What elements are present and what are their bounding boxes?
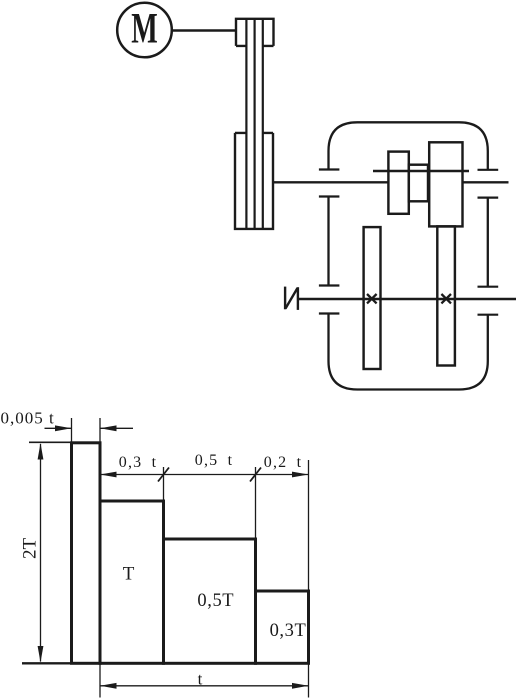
arrow 0,3t left xyxy=(100,472,117,478)
belt line right xyxy=(262,19,264,229)
svg-text:t: t xyxy=(198,670,203,689)
arrow 2T down xyxy=(38,646,44,663)
belt drive small pulley xyxy=(236,19,274,46)
bar 0,5T xyxy=(164,539,256,663)
arrow 2T up xyxy=(38,443,44,460)
input shaft segment from pulley xyxy=(273,181,388,183)
shaft break symbol xyxy=(285,287,298,310)
dim t top line xyxy=(100,474,309,476)
dim 2T vertical xyxy=(40,444,42,662)
bar 0,3T xyxy=(256,591,309,663)
coupling hub xyxy=(409,165,428,202)
gear wheel right on output shaft xyxy=(437,226,455,365)
bearing input shaft right wall xyxy=(478,170,499,198)
svg-text:0,5T: 0,5T xyxy=(197,591,234,611)
extension below baseline right xyxy=(308,663,310,697)
extension below baseline left xyxy=(99,663,101,697)
baseline axis xyxy=(22,662,309,664)
bar 2T xyxy=(72,443,101,664)
svg-text:0,2 t: 0,2 t xyxy=(264,454,302,471)
belt drive big pulley xyxy=(235,133,273,229)
svg-text:0,005 t: 0,005 t xyxy=(1,409,55,428)
slash tick 0,3t xyxy=(158,468,169,482)
dim 2T top tick xyxy=(29,441,72,443)
svg-text:0,5 t: 0,5 t xyxy=(195,452,233,469)
svg-text:0,3 t: 0,3 t xyxy=(119,454,157,471)
belt centerline xyxy=(254,19,256,229)
belt line left xyxy=(245,19,247,229)
fixed joint mark right gear xyxy=(441,294,451,303)
svg-text:T: T xyxy=(123,564,135,585)
gear wheel left on output shaft xyxy=(364,227,381,369)
motor shaft wire xyxy=(172,29,236,31)
bearing output shaft right wall xyxy=(478,287,499,315)
extension line 0,5t xyxy=(255,467,257,538)
bearing output shaft left wall xyxy=(319,286,340,314)
arrow 0,005t left-pointing xyxy=(100,425,117,431)
bar T xyxy=(100,501,164,663)
extension line 0,3t xyxy=(163,467,165,500)
arrow 0,2t right xyxy=(292,472,309,478)
shaft line across gears xyxy=(373,170,469,172)
dim 0,005t line right xyxy=(100,427,133,429)
arrow t right xyxy=(292,683,309,689)
svg-text:2T: 2T xyxy=(20,538,41,560)
load diagram xyxy=(22,443,309,664)
arrow 0,005t right-pointing xyxy=(55,425,72,431)
svg-text:0,3T: 0,3T xyxy=(270,621,307,641)
svg-text:M: M xyxy=(131,6,158,53)
fixed joint mark left gear xyxy=(367,294,377,303)
gearbox housing xyxy=(329,122,488,389)
extension line bar left xyxy=(71,418,73,442)
output shaft xyxy=(298,298,516,300)
dim t bottom line xyxy=(100,685,309,687)
gear big on input shaft xyxy=(429,142,462,226)
dim 0,005t line left xyxy=(45,427,72,429)
slash tick 0,5t xyxy=(250,468,261,482)
arrow t left xyxy=(100,683,117,689)
extension line bar right xyxy=(99,418,101,442)
motor M circle xyxy=(117,3,172,58)
gear pinion on input shaft xyxy=(388,152,408,214)
extension line 0,2t xyxy=(308,460,310,590)
input shaft output segment xyxy=(463,181,509,183)
bearing input shaft left wall xyxy=(319,170,340,197)
